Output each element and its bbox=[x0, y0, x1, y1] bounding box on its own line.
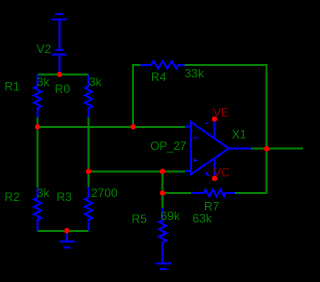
svg-text:V2: V2 bbox=[37, 42, 52, 56]
op-amp input pin stubs bbox=[185, 127, 191, 172]
node junction R1/R2/inverting wire bbox=[35, 124, 40, 129]
svg-text:3k: 3k bbox=[37, 75, 51, 89]
op-amp VE supply pin bbox=[214, 121, 216, 139]
svg-text:3k: 3k bbox=[89, 75, 103, 89]
svg-text:R3: R3 bbox=[57, 190, 73, 204]
wire R4 to output node bbox=[185, 65, 267, 149]
svg-text:X1: X1 bbox=[232, 127, 247, 141]
wire output node bbox=[251, 148, 303, 150]
wire inverting node horizontal bbox=[38, 126, 186, 128]
wire R1 bottom to R2 top bbox=[37, 117, 39, 187]
op-amp inverting input mark bbox=[193, 137, 197, 139]
wire bottom rail R2-R3 bbox=[38, 230, 89, 232]
op-amp U X1 triangle bbox=[191, 122, 229, 174]
resistor R4 bbox=[140, 61, 184, 68]
op-amp output stub bbox=[229, 148, 251, 150]
svg-text:3k: 3k bbox=[37, 186, 51, 200]
resistor R2 bbox=[34, 188, 41, 231]
op-amp VE supply minus mark bbox=[205, 122, 209, 124]
node junction ground tap bbox=[64, 228, 69, 233]
op-amp VC supply pin bbox=[214, 158, 216, 177]
op-amp noninverting input mark bbox=[193, 158, 197, 162]
wire R7 right to output node bbox=[235, 149, 267, 193]
svg-text:2700: 2700 bbox=[91, 186, 118, 200]
svg-text:R0: R0 bbox=[55, 82, 71, 96]
svg-text:VC: VC bbox=[213, 166, 230, 180]
node VE pin dot bbox=[212, 116, 217, 121]
op-amp VC supply plus mark bbox=[206, 172, 209, 175]
wire noninverting branch down to R5/R7 node bbox=[162, 171, 164, 208]
svg-text:69k: 69k bbox=[161, 209, 181, 223]
svg-text:R4: R4 bbox=[151, 70, 167, 84]
node junction output bbox=[264, 146, 269, 151]
svg-text:33k: 33k bbox=[185, 67, 205, 81]
ground G1 bbox=[59, 231, 74, 247]
wire R0 bottom to R3 top bbox=[88, 117, 90, 187]
svg-text:OP_27: OP_27 bbox=[150, 139, 186, 153]
ground G2 bbox=[156, 263, 171, 269]
wire R7 left bbox=[163, 192, 191, 194]
svg-text:VE: VE bbox=[213, 106, 229, 120]
node junction R5/R7 bbox=[160, 190, 165, 195]
resistor R1 bbox=[34, 75, 41, 118]
node junction V2 bottom bbox=[57, 72, 62, 77]
svg-text:63k: 63k bbox=[193, 211, 213, 225]
resistor R5 bbox=[159, 208, 166, 263]
node junction inverting/R4 branch bbox=[130, 124, 135, 129]
svg-text:R2: R2 bbox=[5, 190, 21, 204]
battery V2 bbox=[52, 14, 66, 75]
resistor R7 bbox=[191, 190, 235, 197]
node VC pin dot bbox=[212, 176, 217, 181]
resistor R3 bbox=[85, 187, 92, 231]
wire noninverting node horizontal bbox=[89, 170, 186, 172]
svg-text:R5: R5 bbox=[132, 212, 148, 226]
node junction R0/R3 column bbox=[86, 169, 91, 174]
node junction noninverting branch bbox=[160, 169, 165, 174]
wire top rail R1-R0 bbox=[38, 74, 89, 76]
resistor R0 bbox=[85, 75, 92, 118]
svg-text:R1: R1 bbox=[5, 80, 21, 94]
wire inverting node to R4 bbox=[133, 65, 140, 127]
